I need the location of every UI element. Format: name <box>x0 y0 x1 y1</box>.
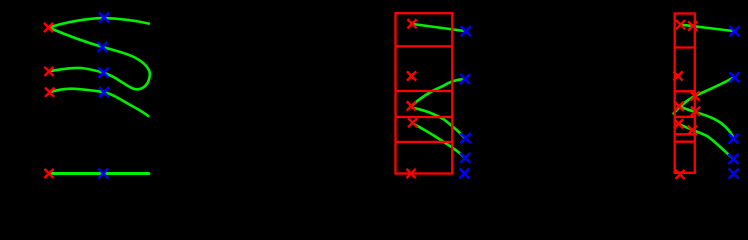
blue X L3 <box>99 68 109 78</box>
red X R1 <box>676 20 685 29</box>
red X M2 <box>407 71 416 80</box>
red X R3b on right edge <box>691 107 700 116</box>
blue X L4 <box>99 87 109 97</box>
red X R4b on right edge <box>688 126 697 135</box>
red X M1 <box>407 19 416 28</box>
green curve G3: down from red R3 through edge X to blue R3 <box>680 107 734 139</box>
green line G1: red R1 through edge X to blue R1 <box>681 25 733 31</box>
blue X R5 <box>729 169 739 179</box>
blue X M2 <box>460 74 470 84</box>
red X R4 <box>674 119 683 128</box>
red X R2b on right edge <box>690 91 699 100</box>
grid middle: outer rectangle <box>396 13 453 173</box>
blue X R1 <box>730 26 740 36</box>
green curve B: hairpin from red L1 through blue L2, loop right, back through blue L3 to red L2 <box>49 28 150 90</box>
grid middle: row line 1 <box>396 45 453 47</box>
red X R2 <box>673 71 682 80</box>
green curve A: top branch from red L1 through blue L1 <box>49 18 150 28</box>
blue X L5 <box>98 169 108 179</box>
red X M4 <box>408 118 417 127</box>
blue X M1 <box>461 26 471 36</box>
green line D: bottom horizontal segment through red L4 and blue L5 <box>50 172 149 175</box>
grid middle: row line 3 <box>396 116 453 118</box>
grid right: row line 2 <box>675 90 695 92</box>
blue X R2 <box>730 72 740 82</box>
blue X M3 <box>461 133 471 143</box>
red X L3 <box>45 88 54 97</box>
grid right: row line 5 <box>675 141 695 143</box>
red X M3 <box>407 101 416 110</box>
green curve G4: down from red R4 through edge X to blue R4 <box>679 124 733 159</box>
red X R1b on right edge <box>688 21 697 30</box>
red X R5 on bottom edge <box>675 170 684 179</box>
grid right: outer rectangle <box>675 14 695 173</box>
grid middle: row line 2 <box>396 90 453 92</box>
green line M1: red M1 to blue M1 <box>413 24 465 31</box>
grid right: row line 3 <box>675 116 695 118</box>
blue X L1 <box>99 13 109 23</box>
green curve M4: red M4 down to blue M4 <box>413 124 464 157</box>
green curve M2: red M3 up to blue M2 <box>412 79 464 106</box>
red X L1 <box>44 23 53 32</box>
green curve C: from red L3 through blue L4 to lower-right tail <box>50 89 149 116</box>
green curve M3: red M3 down to blue M3 <box>413 108 465 138</box>
grid right: row line 4 <box>675 133 695 135</box>
blue X R4 <box>728 154 738 164</box>
blue X R3 <box>728 134 738 144</box>
red X L2 <box>44 67 53 76</box>
red X M5 <box>406 169 415 178</box>
grid right: row line 1 <box>675 46 695 48</box>
red X L4 <box>44 169 53 178</box>
grid middle: row line 4 <box>396 141 453 143</box>
red X R3 <box>674 102 683 111</box>
blue X L2 <box>98 42 108 52</box>
blue X M5 <box>459 169 469 179</box>
blue X M4 <box>460 153 470 163</box>
green curve G2: up from red R3 through edge X to blue R2 <box>674 78 734 114</box>
